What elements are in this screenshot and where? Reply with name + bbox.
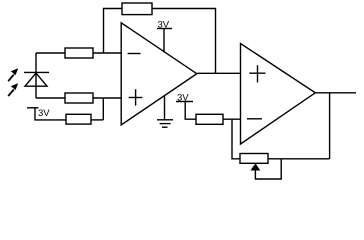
wire node minus input U1 <box>36 52 121 54</box>
label 3V U2 <box>177 93 189 104</box>
supply 3V left <box>27 108 66 120</box>
wire node plus input U1 <box>36 98 121 120</box>
wire R4 to plus node <box>91 119 103 121</box>
ground <box>157 96 173 127</box>
photodiode D1 <box>24 53 49 98</box>
wire U1 output to U2 plus <box>197 72 240 74</box>
svg-text:3V: 3V <box>158 20 170 31</box>
resistor R1 (input to U1 inverting) <box>65 48 93 58</box>
wire RV1 to feedback <box>268 93 330 159</box>
label 3V left <box>38 108 50 119</box>
wire top feedback net <box>104 9 216 74</box>
potentiometer RV1 <box>240 154 268 164</box>
resistor R5 (U2 inverting input) <box>196 114 223 124</box>
resistor R4 (bias from 3V) <box>66 114 91 124</box>
light arrow 1 <box>8 68 18 81</box>
resistor R2 (feedback of U1) <box>122 3 152 15</box>
svg-text:3V: 3V <box>38 108 50 119</box>
wire U2 output <box>316 92 357 94</box>
light arrow 2 <box>8 83 18 96</box>
op-amp U2 <box>241 44 316 145</box>
op-amp U1 <box>121 23 197 125</box>
supply 3V for U1 <box>157 29 172 53</box>
svg-text:3V: 3V <box>177 93 189 104</box>
resistor R3 (photodiode load) <box>65 93 93 103</box>
wire R5 to U2 minus node <box>223 119 240 159</box>
label 3V U1 <box>158 20 170 31</box>
supply 3V for U2 bias <box>176 102 196 120</box>
wiper arrow of RV1 <box>251 159 282 179</box>
